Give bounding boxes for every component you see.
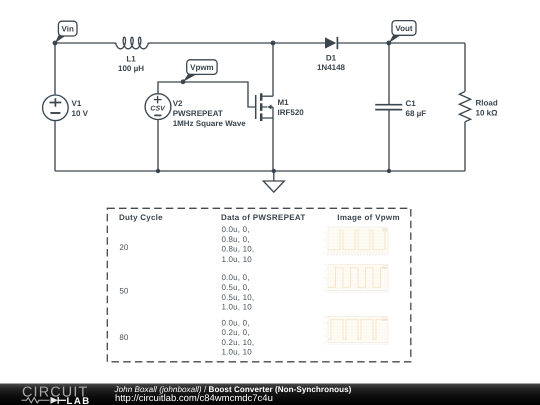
svg-text:0.8u, 0,: 0.8u, 0, [222, 235, 250, 244]
svg-text:0.2u, 10,: 0.2u, 10, [222, 338, 255, 347]
inductor L1 [114, 37, 150, 49]
svg-text:0.0u, 0,: 0.0u, 0, [222, 273, 250, 282]
logo resistor zigzag [22, 398, 50, 403]
svg-text:10 kΩ: 10 kΩ [476, 109, 499, 118]
capacitor C1 [375, 43, 402, 171]
svg-text:Vin: Vin [62, 25, 74, 34]
ground [263, 171, 284, 192]
node Vin flag [55, 21, 77, 43]
svg-text:0.8u, 10,: 0.8u, 10, [222, 245, 255, 254]
svg-text:68 µF: 68 µF [406, 109, 427, 118]
diode D1 [325, 37, 337, 49]
svg-text:Duty Cycle: Duty Cycle [119, 213, 163, 222]
node dot V2-gnd [156, 169, 160, 173]
node dot source-gnd [272, 169, 276, 173]
wire M1 source down [272, 107, 274, 171]
waveform thumbnail 2 (duty 50%) [324, 265, 388, 294]
svg-text:http://circuitlab.com/c84wmcmd: http://circuitlab.com/c84wmcmdc7c4u [115, 393, 273, 404]
wire bottom rail [55, 170, 465, 172]
svg-text:L1: L1 [126, 55, 136, 64]
svg-text:0.5u, 0,: 0.5u, 0, [222, 283, 250, 292]
voltage source V2 [145, 94, 171, 120]
svg-text:IRF520: IRF520 [278, 108, 305, 117]
waveform thumbnail 3 (duty 80%) [324, 317, 388, 346]
svg-text:CSV: CSV [150, 105, 166, 112]
svg-text:Data of PWSREPEAT: Data of PWSREPEAT [221, 213, 306, 222]
svg-text:0.5u, 10,: 0.5u, 10, [222, 293, 255, 302]
svg-text:V2: V2 [173, 99, 183, 108]
wire left vertical top [54, 43, 56, 95]
svg-text:LAB: LAB [67, 396, 91, 405]
svg-text:50: 50 [119, 287, 128, 296]
node dot Vin [53, 41, 58, 46]
wire top rail middle segment [150, 42, 325, 44]
node dot Vout [386, 41, 391, 46]
svg-text:0.0u, 0,: 0.0u, 0, [222, 225, 250, 234]
logo diode [51, 397, 59, 404]
node Vout flag [389, 21, 416, 43]
node dot Vpwm [181, 79, 186, 84]
transistor M1 (NMOS) [256, 93, 273, 121]
svg-text:1MHz Square Wave: 1MHz Square Wave [173, 119, 247, 128]
svg-text:Image of Vpwm: Image of Vpwm [337, 213, 400, 222]
node dot C1-gnd [387, 169, 391, 173]
data row 2 [222, 273, 255, 312]
node dot drain junction [271, 41, 276, 46]
table dashed border [107, 208, 411, 361]
svg-text:80: 80 [119, 333, 128, 342]
svg-text:1.0u, 10: 1.0u, 10 [222, 303, 253, 312]
resistor Rload [459, 92, 470, 122]
wire right vertical below resistor [464, 122, 466, 171]
svg-text:0.2u, 0,: 0.2u, 0, [222, 328, 250, 337]
svg-text:1N4148: 1N4148 [317, 63, 346, 72]
wire top rail left segment [55, 42, 114, 44]
svg-text:V1: V1 [72, 99, 82, 108]
svg-text:10 V: 10 V [72, 109, 89, 118]
svg-text:D1: D1 [326, 54, 337, 63]
svg-text:1.0u, 10: 1.0u, 10 [222, 255, 253, 264]
wire V2 top lead [158, 82, 256, 107]
data row 1 [222, 225, 255, 264]
svg-text:100 µH: 100 µH [118, 64, 144, 73]
svg-text:1.0u, 10: 1.0u, 10 [222, 348, 253, 357]
wire left vertical bottom [54, 121, 56, 171]
waveform thumbnail 1 (duty 20%) [324, 227, 388, 256]
wire top rail right segment [338, 42, 465, 44]
data row 3 [222, 319, 255, 357]
svg-text:Rload: Rload [476, 99, 498, 108]
voltage source V1 [43, 95, 69, 121]
svg-text:0.0u, 0,: 0.0u, 0, [222, 319, 250, 328]
svg-text:C1: C1 [406, 99, 417, 108]
wire M1 drain up [272, 43, 274, 96]
wire V2 bottom lead [157, 120, 159, 172]
svg-text:20: 20 [119, 243, 128, 252]
svg-text:Vout: Vout [395, 24, 413, 33]
svg-text:M1: M1 [278, 98, 290, 107]
svg-text:PWSREPEAT: PWSREPEAT [173, 109, 223, 118]
svg-text:Vpwm: Vpwm [190, 63, 214, 72]
node Vpwm flag [183, 60, 217, 82]
wire right vertical to resistor [464, 43, 466, 92]
